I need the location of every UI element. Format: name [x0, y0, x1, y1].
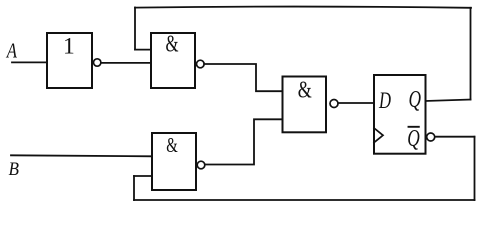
FF1 Qbar output bubble [427, 133, 435, 141]
wire: U3 output to D input of FF1 [338, 102, 374, 104]
wire: Q feedback (top run) [135, 7, 471, 8]
wire: Qbar feedback bottom run [134, 199, 475, 201]
NAND gate U2 (top) [151, 32, 195, 89]
wire: Q feedback right vertical (up to top run) [470, 8, 472, 100]
wire: Qbar feedback right vertical (down) [474, 137, 476, 200]
wire: Qbar output to right vertical [435, 136, 475, 138]
wire: input B to NAND U4 [11, 155, 152, 156]
D flip-flop FF1 [374, 75, 426, 154]
wire: U2 output to NAND U3 upper input [204, 64, 282, 91]
svg-text:A: A [5, 38, 17, 62]
svg-text:Q: Q [409, 87, 422, 113]
svg-text:1: 1 [63, 33, 75, 59]
wire: U1 output to NAND U2 input [101, 62, 151, 64]
FF1 Qbar overline [409, 126, 419, 128]
wire: Qbar feedback left vertical (up) [133, 176, 135, 200]
svg-text:Q: Q [407, 126, 420, 152]
inverter U1 (IEC box '1') [47, 33, 92, 88]
svg-text:&: & [298, 77, 312, 104]
NAND gate U4 (bottom) [152, 133, 196, 190]
wire: input A to inverter U1 [12, 61, 47, 63]
svg-text:B: B [9, 160, 20, 180]
svg-text:&: & [166, 133, 178, 157]
wire: U4 output to NAND U3 lower input [205, 119, 282, 164]
wire: Q feedback vertical drop [134, 8, 136, 50]
inverter U1 output bubble [94, 59, 101, 66]
wire: stub into U2 upper input [135, 49, 151, 51]
NAND U3 output bubble [330, 100, 338, 108]
NAND U4 output bubble [197, 161, 205, 169]
wire: stub into U4 lower input [134, 175, 152, 177]
FF1 clock triangle [374, 128, 383, 143]
svg-text:D: D [378, 88, 391, 114]
NAND U2 output bubble [197, 60, 205, 68]
wire: Q output to right vertical [426, 100, 471, 102]
NAND gate U3 (middle) [283, 77, 327, 133]
svg-text:&: & [166, 32, 179, 58]
